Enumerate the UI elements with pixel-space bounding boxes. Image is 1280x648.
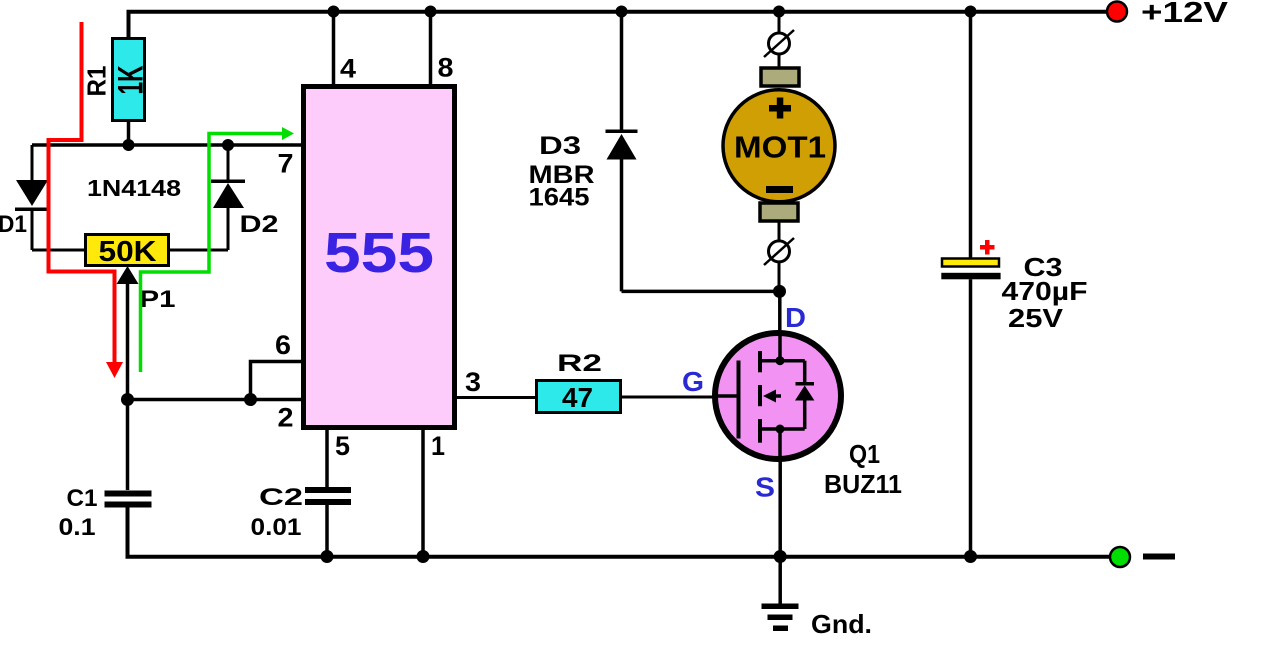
wire gate [621,396,714,399]
node dot drain [773,285,786,298]
svg-text:25V: 25V [1008,303,1064,333]
svg-text:0.01: 0.01 [251,514,302,541]
diode D1 [15,145,49,250]
node dot pin8 [425,6,437,18]
capacitor C3 polarized [941,259,1000,557]
ground symbol [762,557,799,632]
svg-text:Gnd.: Gnd. [811,609,872,639]
transistor Q1 MOSFET [715,333,841,459]
connector bottom (circle with slash) [764,238,794,265]
wire pin2 horizontal [128,398,302,402]
svg-text:0.1: 0.1 [59,514,96,541]
wiper P1 arrow [117,266,139,399]
svg-text:3: 3 [465,367,481,397]
svg-text:R2: R2 [557,350,602,377]
wire motor top [778,12,781,34]
svg-text:1K: 1K [112,66,151,95]
svg-text:C1: C1 [67,485,98,512]
motor MOT1 [723,90,835,202]
node dot pin4 [328,6,340,18]
resistor R2 [537,381,621,414]
diode D3 [606,130,638,292]
wire connector to drain node [778,262,781,291]
terminal minus green [1110,547,1130,567]
svg-text:+12V: +12V [1141,0,1229,29]
svg-text:MOT1: MOT1 [734,130,826,165]
node dot pin6/pin2 [244,393,257,406]
wire D3 top [620,12,624,131]
svg-text:5: 5 [335,431,350,461]
svg-text:6: 6 [275,330,291,360]
svg-text:8: 8 [438,53,454,83]
terminal +12V red [1107,2,1127,22]
svg-text:R1: R1 [82,66,112,97]
svg-text:470µF: 470µF [1002,276,1088,306]
svg-text:Q1: Q1 [849,439,880,469]
wire D1 to 50K [32,249,84,252]
svg-text:C2: C2 [259,484,303,511]
wire drain [778,291,782,333]
wire pin3 [456,396,535,399]
node dot source/rail [774,550,787,563]
svg-text:1N4148: 1N4148 [87,175,181,201]
svg-text:P1: P1 [140,286,176,313]
resistor R1 [113,39,145,121]
svg-text:D1: D1 [0,211,27,238]
svg-text:S: S [755,472,775,503]
red charge path [49,22,124,378]
node dot R1/pin7 [123,139,135,151]
wire pin8 [429,12,433,86]
node dot motor rail [773,6,785,18]
wire R1 bottom [127,120,131,145]
svg-text:1645: 1645 [529,184,590,212]
node dot P1/C1/pin2 [121,393,134,406]
svg-text:47: 47 [562,382,593,413]
svg-text:1: 1 [431,431,445,461]
capacitor C1 [105,400,152,508]
wire pin5 [325,429,329,487]
label C3 plus [980,240,995,255]
svg-text:555: 555 [324,221,434,285]
wire terminal to connector [778,221,781,242]
wire pin6 stub [251,362,302,400]
wire pin7 horizontal [32,143,301,147]
node dot D2/pin7 [222,139,234,151]
wire top +12V rail [129,12,1109,37]
node dot C2/rail [321,550,334,563]
svg-text:4: 4 [340,54,356,84]
svg-text:G: G [682,366,704,397]
node dot C3 rail [965,6,977,18]
svg-text:BUZ11: BUZ11 [824,469,902,499]
wire pin1 [421,429,425,557]
label minus dash [1143,554,1175,560]
svg-text:7: 7 [278,149,294,179]
svg-text:D3: D3 [539,132,581,160]
wire pin4 [332,12,336,86]
svg-text:D2: D2 [240,211,279,238]
IC 555 timer [304,87,455,428]
wire connector to terminal [778,54,781,68]
node dot D3 rail [616,6,628,18]
wire bottom rail [128,507,1111,557]
svg-text:2: 2 [278,403,294,433]
diode D2 [211,145,245,250]
node dot pin1/rail [417,550,430,563]
wire D3 to drain node [622,290,780,294]
wire C3 top [969,12,973,259]
motor terminal bottom [760,203,798,221]
svg-text:D: D [785,302,806,333]
capacitor C2 [305,487,351,557]
motor terminal top [761,68,799,86]
svg-text:50K: 50K [99,236,157,268]
connector top (circle with slash) [764,30,794,57]
node dot C3 rail bottom [964,550,977,563]
potentiometer 50K [86,235,169,269]
wire source to rail [778,457,782,557]
green discharge path [141,127,295,372]
wire D2 to 50K [170,249,228,252]
